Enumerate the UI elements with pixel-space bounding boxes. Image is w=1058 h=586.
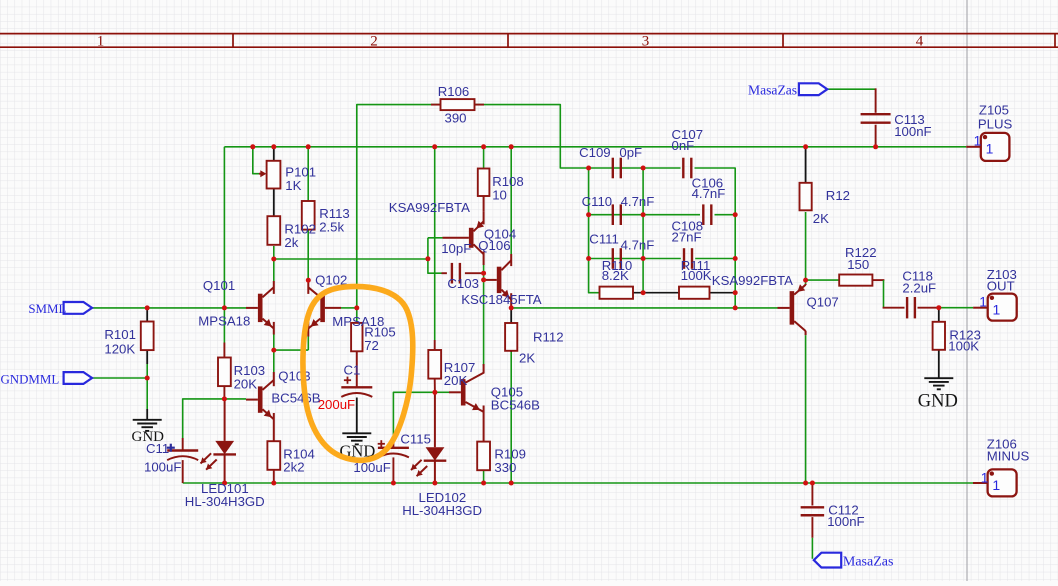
svg-text:1: 1 bbox=[981, 470, 989, 485]
label R105 bbox=[364, 325, 396, 340]
label 330 bbox=[494, 460, 516, 475]
wire Q101 emitter down bbox=[273, 334, 275, 350]
svg-text:1: 1 bbox=[979, 295, 987, 310]
connector Z105 pin bbox=[966, 146, 981, 148]
wire R101 to GNDMML bbox=[146, 364, 148, 378]
pin C118 left bbox=[883, 307, 905, 309]
junction C103 node bbox=[481, 271, 486, 276]
label GND bbox=[340, 441, 376, 460]
wire top bus bbox=[224, 146, 966, 148]
wire R12 net bbox=[805, 212, 807, 280]
svg-text:C103: C103 bbox=[447, 276, 479, 291]
label 72 bbox=[364, 338, 379, 353]
svg-text:C109: C109 bbox=[579, 145, 611, 160]
wire Q107 emitter up bbox=[805, 280, 807, 284]
wire MasaZas top bbox=[827, 88, 876, 90]
port MasaZas top bbox=[799, 83, 827, 95]
svg-text:2k: 2k bbox=[284, 235, 298, 250]
pin R101 bottom bbox=[146, 350, 148, 364]
label 0pF bbox=[619, 145, 642, 160]
svg-text:Q101: Q101 bbox=[203, 278, 235, 293]
led LED102 bbox=[411, 392, 446, 483]
svg-text:390: 390 bbox=[444, 110, 466, 125]
junction KSC base node bbox=[481, 277, 486, 282]
label HL-304H3GD bbox=[402, 503, 482, 518]
junction R12 bottom bbox=[803, 278, 808, 283]
label R108 bbox=[492, 174, 524, 189]
svg-text:KSA992FBTA: KSA992FBTA bbox=[712, 273, 793, 288]
label Q106 bbox=[478, 238, 510, 253]
svg-text:1: 1 bbox=[986, 141, 994, 157]
wire Q101 collector up bbox=[273, 259, 275, 281]
wire R113 bottom bbox=[307, 231, 309, 281]
label R110 bbox=[602, 258, 633, 273]
label C106 bbox=[692, 176, 724, 191]
junction bottom bus 7 bbox=[803, 481, 808, 486]
label C110 bbox=[582, 194, 613, 209]
svg-text:3: 3 bbox=[642, 34, 650, 50]
svg-text:GNDMML: GNDMML bbox=[1, 372, 60, 386]
label 1 bbox=[979, 295, 987, 310]
wire R106 net right bbox=[476, 105, 589, 168]
wire bottom bus bbox=[183, 482, 973, 484]
pin R112 bottom bbox=[510, 351, 512, 352]
svg-text:4.7nF: 4.7nF bbox=[621, 194, 655, 209]
svg-text:MINUS: MINUS bbox=[987, 448, 1030, 463]
junction bottom bus 8 bbox=[810, 481, 815, 486]
connector Z103 pin bbox=[973, 307, 988, 309]
junction row4 right bbox=[733, 290, 738, 295]
label Q101 bbox=[203, 278, 235, 293]
junction bottom bus 3 bbox=[391, 481, 396, 486]
label 8.2K bbox=[602, 268, 629, 283]
label OUT bbox=[987, 279, 1015, 294]
svg-text:0nF: 0nF bbox=[672, 138, 695, 153]
svg-text:150: 150 bbox=[847, 257, 869, 272]
port SMML bbox=[64, 302, 92, 314]
wire C112 bottom pin bbox=[811, 517, 813, 538]
wire Q104 base bbox=[428, 237, 443, 239]
wire C118 to Z103 bbox=[939, 307, 973, 309]
label 390 bbox=[444, 110, 466, 125]
label C107 bbox=[672, 127, 704, 142]
label Q105 bbox=[491, 385, 523, 400]
pin GND1 stem bbox=[146, 409, 148, 420]
svg-text:Q106: Q106 bbox=[478, 238, 510, 253]
svg-text:2k2: 2k2 bbox=[283, 460, 304, 475]
svg-text:R113: R113 bbox=[319, 206, 350, 221]
svg-text:10: 10 bbox=[492, 187, 507, 202]
capacitor C114 bbox=[167, 438, 198, 483]
wire Q105 collector up bbox=[483, 265, 485, 366]
svg-text:4: 4 bbox=[916, 34, 924, 50]
transistor Q104 Q106 bbox=[443, 212, 485, 265]
label C115 bbox=[400, 431, 431, 446]
transistor Q107 bbox=[778, 284, 806, 335]
label Z103 bbox=[987, 267, 1017, 282]
svg-text:1: 1 bbox=[974, 134, 982, 149]
svg-text:1: 1 bbox=[992, 477, 1000, 493]
label 20K bbox=[444, 373, 468, 388]
label 100uF bbox=[144, 459, 181, 474]
resistor R106 bbox=[431, 99, 484, 110]
resistor R104 bbox=[267, 441, 280, 483]
label 2.5k bbox=[319, 220, 344, 235]
resistor R105 bbox=[351, 323, 362, 387]
junction cap row1 mid bbox=[641, 166, 646, 171]
wire rail R102-Q104base bbox=[274, 258, 428, 260]
junction top bus 2 bbox=[271, 144, 276, 149]
transistor Q103 bbox=[246, 372, 274, 441]
wire C113 bottom bbox=[875, 125, 877, 147]
wire bus drop to R107 bbox=[434, 147, 436, 340]
wire Q103 base bbox=[224, 398, 246, 400]
label 1 bbox=[981, 470, 989, 485]
svg-text:C11: C11 bbox=[146, 441, 169, 456]
junction Q104 base node bbox=[425, 256, 430, 261]
label 0nF bbox=[672, 138, 695, 153]
label C109 bbox=[579, 145, 611, 160]
svg-text:100nF: 100nF bbox=[827, 514, 864, 529]
svg-text:KSA992FBTA: KSA992FBTA bbox=[389, 200, 470, 215]
label HL-304H3GD bbox=[185, 494, 265, 509]
wire KSC collector up bbox=[510, 147, 512, 254]
junction KSC emitter bbox=[509, 305, 514, 310]
junction top bus 8 bbox=[873, 144, 878, 149]
label 2.2uF bbox=[902, 281, 936, 296]
resistor R107 bbox=[428, 340, 441, 392]
label GNDMML bbox=[1, 372, 60, 386]
svg-text:GND: GND bbox=[918, 392, 958, 412]
label 10pF bbox=[441, 241, 471, 256]
label 1 bbox=[974, 134, 982, 149]
transistor Q105 bbox=[449, 364, 484, 442]
label KSA992FBTA bbox=[389, 200, 470, 215]
wire R109 bottom bbox=[483, 471, 485, 484]
wire cap bank left vertical bbox=[589, 168, 599, 293]
ground under R101 bbox=[133, 420, 162, 431]
ground under R123 bbox=[924, 378, 953, 389]
connector Z106 bbox=[988, 469, 1017, 496]
wire cap row1 bbox=[589, 167, 681, 169]
label P101 bbox=[285, 164, 316, 179]
wire Q103 collector up bbox=[273, 350, 275, 372]
capacitor C1 bbox=[341, 377, 372, 397]
svg-text:OUT: OUT bbox=[987, 279, 1015, 294]
wire R111 right link bbox=[709, 292, 735, 294]
resistor R122 bbox=[839, 275, 872, 286]
label GND bbox=[132, 429, 165, 445]
resistor R123 bbox=[933, 322, 945, 350]
junction bottom bus 1 bbox=[222, 481, 227, 486]
svg-text:100K: 100K bbox=[681, 268, 712, 283]
label 100K bbox=[948, 339, 979, 354]
wire C112 top pin bbox=[811, 483, 813, 506]
label 2k bbox=[284, 235, 298, 250]
label Z105 bbox=[979, 103, 1009, 118]
junction top bus 3 bbox=[306, 144, 311, 149]
pin R122 right bbox=[872, 279, 884, 281]
wire R105 top bbox=[356, 308, 358, 323]
capacitor C111 bbox=[613, 248, 621, 269]
svg-text:100nF: 100nF bbox=[894, 124, 931, 139]
label R122 bbox=[845, 245, 877, 260]
svg-text:120K: 120K bbox=[104, 341, 135, 356]
connector Z106 pin bbox=[973, 482, 988, 484]
svg-text:1: 1 bbox=[97, 34, 105, 50]
label LED102 bbox=[419, 490, 467, 505]
label C113 bbox=[894, 112, 925, 127]
pin C1 bottom stem bbox=[356, 398, 358, 434]
transistor KSC1845 bbox=[484, 254, 512, 308]
svg-text:2K: 2K bbox=[813, 211, 829, 226]
label Q107 bbox=[807, 294, 839, 309]
svg-text:HL-304H3GD: HL-304H3GD bbox=[185, 494, 265, 509]
svg-text:KSC1845FTA: KSC1845FTA bbox=[461, 292, 542, 307]
label LED101 bbox=[201, 481, 249, 496]
label 150 bbox=[847, 257, 869, 272]
label R112 bbox=[533, 329, 564, 344]
wire R12 top black bbox=[805, 147, 807, 183]
label MasaZas bbox=[843, 554, 894, 569]
orange annotation ellipse bbox=[303, 286, 413, 460]
capacitor C110 bbox=[613, 204, 621, 225]
wire R122 left bbox=[806, 279, 839, 281]
junction R103 base node bbox=[222, 396, 227, 401]
label 100nF bbox=[894, 124, 931, 139]
svg-text:100uF: 100uF bbox=[144, 459, 181, 474]
label MINUS bbox=[987, 448, 1030, 463]
junction bottom bus 6 bbox=[509, 481, 514, 486]
svg-text:2: 2 bbox=[370, 34, 378, 50]
label KSA992FBTA bbox=[712, 273, 793, 288]
wire R112 down bbox=[510, 352, 512, 483]
wire R101 to GND bbox=[146, 378, 148, 409]
resistor R112 bbox=[505, 323, 517, 351]
label 100K bbox=[681, 268, 712, 283]
label 120K bbox=[104, 341, 135, 356]
label Q104 bbox=[484, 226, 516, 241]
junction Q102 collector bbox=[306, 278, 311, 283]
wire Q107 collector down bbox=[805, 335, 807, 483]
svg-text:R112: R112 bbox=[533, 329, 564, 344]
junction cap row3 left bbox=[586, 256, 591, 261]
junction top bus 4 bbox=[432, 144, 437, 149]
resistor R103 bbox=[218, 343, 231, 399]
wire R108 top bbox=[483, 147, 485, 169]
svg-text:BC546B: BC546B bbox=[271, 390, 320, 405]
svg-text:MPSA18: MPSA18 bbox=[198, 313, 250, 328]
wire cap row1 right bbox=[695, 168, 736, 308]
label R103 bbox=[234, 363, 266, 378]
resistor R109 bbox=[477, 442, 490, 471]
label C108 bbox=[672, 219, 704, 234]
wire Q105 base bbox=[435, 391, 449, 393]
capacitor C103 bbox=[442, 263, 484, 284]
label 2K bbox=[813, 211, 829, 226]
svg-text:20K: 20K bbox=[234, 376, 258, 391]
wire C114 node left bbox=[183, 399, 225, 438]
pin P101 top bbox=[273, 147, 275, 161]
svg-text:C110: C110 bbox=[582, 194, 613, 209]
wire cap bank mid vertical bbox=[642, 168, 644, 293]
resistor R111 bbox=[679, 287, 710, 299]
label C118 bbox=[902, 269, 933, 284]
svg-text:R101: R101 bbox=[104, 327, 136, 342]
wire R122 corner down bbox=[883, 280, 885, 308]
pin R101 top bbox=[146, 308, 148, 322]
label Z106 bbox=[987, 437, 1017, 452]
label PLUS bbox=[978, 116, 1013, 131]
label R113 bbox=[319, 206, 350, 221]
wire R106 net left bbox=[357, 105, 440, 308]
junction cap row2 left bbox=[586, 212, 591, 217]
label C111 bbox=[589, 232, 619, 247]
pin R112 top bbox=[510, 308, 512, 323]
junction SMML-R103 bbox=[222, 305, 227, 310]
junction bottom bus 4 bbox=[432, 481, 437, 486]
junction Q102 base node bbox=[354, 305, 359, 310]
wire emitter rail bbox=[274, 349, 309, 351]
label R111 bbox=[681, 258, 711, 273]
svg-text:20K: 20K bbox=[444, 373, 468, 388]
junction row4 mid bbox=[641, 290, 646, 295]
label MPSA18 bbox=[198, 313, 250, 328]
svg-text:100K: 100K bbox=[948, 339, 979, 354]
wire Q102 emitter down bbox=[307, 336, 309, 350]
wire SMML net bbox=[92, 307, 246, 309]
svg-text:Q107: Q107 bbox=[807, 294, 839, 309]
capacitor C106 bbox=[703, 204, 711, 225]
junction R102 node bbox=[271, 257, 276, 262]
label 200uF bbox=[318, 397, 355, 412]
wire GNDMML net bbox=[92, 377, 147, 379]
svg-text:R12: R12 bbox=[826, 188, 850, 203]
svg-text:C115: C115 bbox=[400, 431, 431, 446]
label R101 bbox=[104, 327, 136, 342]
wire P101 wiper bbox=[253, 147, 259, 174]
label GND bbox=[918, 392, 958, 412]
label C11 bbox=[146, 441, 169, 456]
label 4.7nF bbox=[621, 237, 655, 252]
led LED101 bbox=[201, 399, 237, 483]
pin R123 bottom bbox=[938, 350, 940, 379]
resistor R102 bbox=[267, 216, 280, 245]
svg-text:1: 1 bbox=[993, 301, 1001, 317]
junction emitter rail bbox=[271, 348, 276, 353]
capacitor C118 bbox=[907, 297, 915, 318]
label 2k2 bbox=[283, 460, 304, 475]
junction GNDMML-R101 bbox=[145, 376, 150, 381]
wire cap row2 right bbox=[715, 214, 736, 216]
svg-text:C1: C1 bbox=[344, 362, 361, 377]
label R102 bbox=[284, 222, 316, 237]
wire Q102 base to node bbox=[341, 307, 357, 309]
svg-text:SMML: SMML bbox=[28, 302, 66, 316]
label C103 bbox=[447, 276, 479, 291]
junction rail Q107 bbox=[733, 305, 738, 310]
label R106 bbox=[438, 84, 470, 99]
label BC546B bbox=[271, 390, 320, 405]
label R104 bbox=[283, 446, 315, 461]
svg-text:4.7nF: 4.7nF bbox=[621, 237, 655, 252]
label 4.7nF bbox=[621, 194, 655, 209]
label BC546B bbox=[491, 398, 540, 413]
label 27nF bbox=[672, 229, 702, 244]
junction C118 right bbox=[936, 305, 941, 310]
label R109 bbox=[494, 447, 526, 462]
junction top bus 6 bbox=[509, 144, 514, 149]
junction R107 base node bbox=[432, 390, 437, 395]
capacitor C109 bbox=[613, 158, 621, 179]
label 2K bbox=[519, 351, 535, 366]
junction bottom bus 2 bbox=[271, 481, 276, 486]
resistor R101 bbox=[141, 322, 154, 351]
svg-text:HL-304H3GD: HL-304H3GD bbox=[402, 503, 482, 518]
junction top bus 7 bbox=[803, 144, 808, 149]
resistor R113 bbox=[302, 201, 315, 230]
wire MasaZas drop bbox=[875, 88, 877, 112]
label SMML bbox=[28, 302, 66, 316]
pin C118 right bbox=[918, 307, 939, 309]
label Q102 bbox=[315, 272, 347, 287]
wire cap row2 bbox=[589, 214, 700, 216]
port MasaZas bottom bbox=[814, 553, 841, 568]
capacitor C108 bbox=[684, 248, 692, 269]
wire R113 top bbox=[307, 147, 309, 201]
wire R110-R111 link bbox=[634, 292, 680, 294]
wire C112 to MasaZas bbox=[811, 538, 813, 559]
label R12 bbox=[826, 188, 850, 203]
ground under C1 bbox=[342, 433, 371, 444]
label C1 bbox=[344, 362, 361, 377]
label Q103 bbox=[278, 368, 310, 383]
capacitor C113 bbox=[861, 113, 891, 123]
label 10 bbox=[492, 187, 507, 202]
wire bus left drop to R103 bbox=[223, 147, 225, 343]
label 4.7nF bbox=[692, 186, 726, 201]
pin R123 top bbox=[938, 308, 940, 322]
svg-text:R106: R106 bbox=[438, 84, 470, 99]
svg-text:2.2uF: 2.2uF bbox=[902, 281, 936, 296]
port GNDMML bbox=[64, 372, 92, 384]
svg-text:10pF: 10pF bbox=[441, 241, 471, 256]
label R107 bbox=[444, 360, 476, 375]
label R123 bbox=[949, 328, 981, 343]
svg-text:MasaZas: MasaZas bbox=[748, 82, 797, 97]
wire cap row3 bbox=[589, 258, 681, 260]
wire cap row3 right bbox=[695, 258, 735, 260]
svg-text:330: 330 bbox=[494, 460, 516, 475]
wire C103 node bbox=[428, 238, 442, 273]
label C112 bbox=[828, 503, 859, 518]
wire C115 node left bbox=[393, 392, 435, 438]
resistor R108 bbox=[478, 169, 490, 212]
svg-text:1K: 1K bbox=[285, 178, 301, 193]
connector Z103 bbox=[988, 294, 1017, 321]
junction cap row2 mid bbox=[641, 212, 646, 217]
svg-text:2K: 2K bbox=[519, 351, 535, 366]
capacitor C107 bbox=[683, 158, 691, 179]
svg-text:BC546B: BC546B bbox=[491, 398, 540, 413]
svg-text:0pF: 0pF bbox=[619, 145, 642, 160]
label MPSA18 bbox=[332, 314, 384, 329]
label 100uF bbox=[353, 460, 390, 475]
svg-text:4.7nF: 4.7nF bbox=[692, 186, 726, 201]
junction cap row1 left bbox=[586, 166, 591, 171]
svg-text:72: 72 bbox=[364, 338, 379, 353]
resistor R110 bbox=[600, 287, 634, 299]
